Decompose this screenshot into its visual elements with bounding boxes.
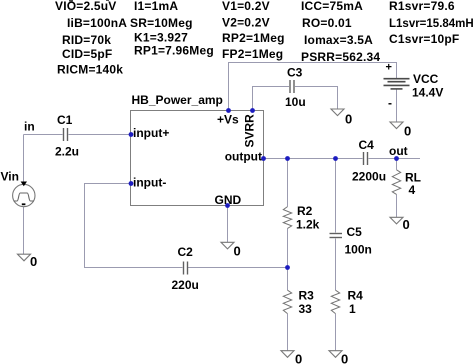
svg-text:out: out <box>389 144 408 158</box>
svg-text:1: 1 <box>349 302 356 316</box>
svg-text:4: 4 <box>409 183 416 197</box>
svg-text:0: 0 <box>404 124 411 139</box>
svg-text:R3: R3 <box>299 289 315 303</box>
svg-text:1.2k: 1.2k <box>296 218 320 232</box>
svg-text:HB_Power_amp: HB_Power_amp <box>132 93 223 107</box>
svg-text:VCC: VCC <box>413 72 439 86</box>
svg-text:Iomax=3.5A: Iomax=3.5A <box>304 33 373 47</box>
svg-text:PSRR=562.34: PSRR=562.34 <box>301 50 380 64</box>
svg-text:10u: 10u <box>285 95 306 109</box>
svg-text:RID=70k: RID=70k <box>62 33 111 47</box>
svg-text:0: 0 <box>30 254 37 269</box>
svg-text:R1svr=79.6: R1svr=79.6 <box>389 0 455 13</box>
svg-text:C3: C3 <box>287 66 303 80</box>
svg-text:L1svr=15.84mH: L1svr=15.84mH <box>389 18 474 30</box>
svg-text:RP2=1Meg: RP2=1Meg <box>222 31 285 45</box>
svg-text:R2: R2 <box>297 204 313 218</box>
svg-text:input-: input- <box>133 176 166 190</box>
svg-text:2.2u: 2.2u <box>55 145 79 159</box>
svg-text:K1=3.927: K1=3.927 <box>134 31 188 45</box>
svg-text:GND: GND <box>215 193 242 207</box>
svg-text:Vin: Vin <box>1 170 19 184</box>
svg-text:RP1=7.96Meg: RP1=7.96Meg <box>134 44 214 58</box>
svg-text:IiB=100nA: IiB=100nA <box>67 16 127 30</box>
svg-text:FP2=1Meg: FP2=1Meg <box>222 47 283 61</box>
svg-text:V1=0.2V: V1=0.2V <box>222 0 270 13</box>
svg-text:ICC=75mA: ICC=75mA <box>301 0 363 13</box>
svg-text:in: in <box>24 120 35 134</box>
svg-text:C1: C1 <box>57 113 73 127</box>
svg-text:100n: 100n <box>345 243 372 257</box>
svg-text:0: 0 <box>403 217 410 232</box>
svg-text:0: 0 <box>234 244 241 259</box>
svg-text:0: 0 <box>345 112 352 127</box>
svg-text:RICM=140k: RICM=140k <box>57 63 123 77</box>
svg-text:2200u: 2200u <box>352 170 386 184</box>
svg-text:V2=0.2V: V2=0.2V <box>222 16 270 30</box>
svg-text:14.4V: 14.4V <box>412 86 443 100</box>
svg-text:R4: R4 <box>348 289 364 303</box>
svg-text:SR=10Meg: SR=10Meg <box>130 16 193 30</box>
svg-text:C1svr=10pF: C1svr=10pF <box>389 32 459 46</box>
svg-text:C4: C4 <box>359 138 375 152</box>
svg-text:SVRR: SVRR <box>243 114 257 148</box>
svg-text:C2: C2 <box>178 245 194 259</box>
svg-text:0: 0 <box>295 352 302 364</box>
svg-text:I1=1mA: I1=1mA <box>134 0 178 13</box>
svg-text:-: - <box>388 96 392 110</box>
svg-text:output: output <box>225 150 262 164</box>
svg-text:33: 33 <box>299 302 313 316</box>
svg-text:+Vs: +Vs <box>217 113 239 127</box>
svg-text:RO=0.01: RO=0.01 <box>302 16 352 30</box>
svg-text:+: + <box>386 62 392 74</box>
svg-text:0: 0 <box>341 352 348 364</box>
svg-text:input+: input+ <box>133 126 169 140</box>
svg-text:C5: C5 <box>347 225 363 239</box>
svg-text:VIO=2.5uV: VIO=2.5uV <box>55 0 117 13</box>
svg-text:220u: 220u <box>172 278 199 292</box>
svg-text:CID=5pF: CID=5pF <box>62 47 112 61</box>
